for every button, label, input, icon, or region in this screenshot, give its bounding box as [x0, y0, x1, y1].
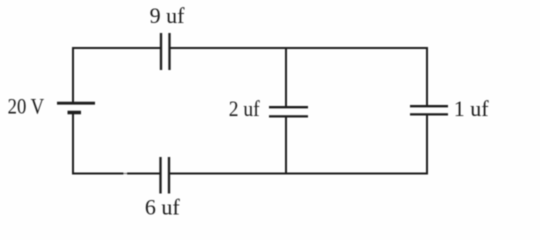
svg-text:2 uf: 2 uf: [229, 96, 261, 121]
wire left upper: [72, 47, 74, 103]
capacitor C3 2uf plates: [269, 107, 308, 116]
svg-text:1 uf: 1 uf: [454, 96, 490, 121]
wire left lower: [72, 113, 74, 175]
wire bottom-left segment: [72, 173, 124, 175]
wire bottom-right segment: [170, 173, 429, 175]
wire top-right segment: [170, 47, 427, 49]
wire right upper: [426, 47, 428, 106]
capacitor C2 6uf plates: [161, 157, 170, 194]
wire bottom-left segment b: [127, 173, 160, 175]
capacitor C4 1uf plates: [410, 106, 448, 114]
wire right lower: [426, 115, 428, 175]
wire top-left segment: [73, 47, 160, 49]
wire bottom-left faint break: [124, 173, 128, 175]
wire middle upper: [285, 48, 287, 107]
battery V1 20V plates: [57, 103, 95, 112]
capacitor C1 9uf plates: [161, 33, 170, 70]
svg-text:9 uf: 9 uf: [150, 3, 186, 28]
svg-text:6 uf: 6 uf: [145, 194, 181, 219]
wire middle lower: [285, 117, 287, 174]
svg-text:20 V: 20 V: [8, 94, 45, 119]
